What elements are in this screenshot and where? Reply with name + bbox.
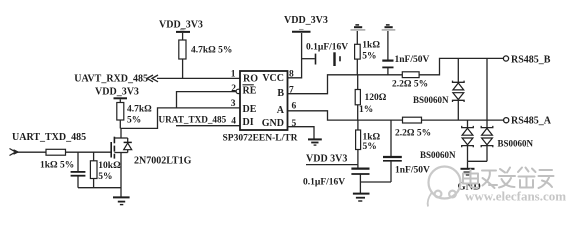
svg-text:BS0060N: BS0060N	[413, 95, 449, 105]
svg-text:URAT_TXD_485: URAT_TXD_485	[159, 115, 227, 125]
capacitor C6 1nF/50V (A)	[360, 120, 430, 182]
svg-text:RS485_A: RS485_A	[511, 116, 552, 127]
svg-text:B: B	[277, 88, 284, 99]
node URAT_TXD_485 (DI)	[159, 115, 241, 126]
svg-text:4.7kΩ 5%: 4.7kΩ 5%	[191, 46, 232, 56]
resistor R5 1k (B bias)	[355, 31, 381, 75]
wire B to port	[419, 58, 503, 74]
svg-text:BS0060N: BS0060N	[420, 150, 456, 160]
wire TVS ground link	[468, 160, 488, 162]
svg-text:DI: DI	[243, 117, 254, 128]
svg-text:VDD 3V3: VDD 3V3	[306, 154, 347, 165]
resistor R4 10k gate pulldown	[90, 152, 121, 188]
transistor Q1 2N7002LT1G	[111, 128, 191, 196]
svg-text:5%: 5%	[362, 52, 376, 62]
svg-text:VDD_3V3: VDD_3V3	[284, 15, 328, 26]
port RS485_A	[504, 116, 552, 127]
svg-text:1: 1	[231, 70, 236, 80]
diode D3 TVS BS0060N (A-GND)	[420, 120, 473, 161]
ground (pin5)	[308, 139, 322, 145]
svg-text:1kΩ: 1kΩ	[362, 41, 380, 51]
wire R2 to drain node	[119, 120, 121, 128]
svg-text:0.1µF/16V: 0.1µF/16V	[306, 43, 348, 53]
svg-text:1kΩ: 1kΩ	[363, 133, 381, 143]
ground (Q1 source)	[113, 197, 130, 204]
wire RXD to pin1	[157, 77, 240, 79]
svg-text:5%: 5%	[363, 142, 377, 152]
svg-text:6: 6	[292, 102, 297, 112]
wire ground rail	[78, 187, 121, 189]
svg-text:DE: DE	[243, 104, 257, 115]
resistor R9 1k (A bias)	[356, 120, 381, 165]
svg-text:UAVT_RXD_485: UAVT_RXD_485	[74, 74, 148, 85]
svg-text:1%: 1%	[359, 105, 373, 115]
op-amp U1 SP3072EEN-L/TR body	[223, 71, 298, 144]
resistor R7 2.2 ohm (B series)	[392, 72, 428, 90]
watermark text dianzi fashaoyou	[463, 168, 554, 189]
wire pin8 VCC	[288, 33, 302, 78]
node UAVT_RXD_485	[74, 74, 158, 85]
wire TXD to R3	[18, 151, 47, 153]
svg-text:www.elecfans.com: www.elecfans.com	[465, 189, 566, 204]
svg-text:2.2Ω 5%: 2.2Ω 5%	[395, 129, 431, 139]
power bar (above C4)	[382, 25, 396, 30]
wire pin7 B line	[288, 75, 403, 94]
wire pin5 GND	[288, 127, 315, 139]
svg-text:4: 4	[231, 117, 236, 127]
node UART_TXD_485 input	[10, 132, 87, 156]
svg-text:10kΩ: 10kΩ	[98, 161, 121, 171]
wire R3 to gate	[66, 151, 111, 153]
resistor R8 2.2 ohm (A series)	[395, 117, 431, 138]
resistor R2 4.7k pullup drain	[117, 103, 152, 126]
svg-text:BS0060N: BS0060N	[498, 139, 534, 149]
power VDD_3V3 (VCC)	[284, 15, 328, 32]
port RS485_B	[503, 55, 550, 66]
svg-text:1nF/50V: 1nF/50V	[395, 166, 430, 176]
wire pin6 A line	[288, 111, 403, 120]
wire RE tie vertical	[177, 92, 237, 108]
power VDD_3V3 (top, above R1)	[159, 20, 203, 41]
wire R1 to RXD net	[182, 59, 184, 78]
capacitor C4 1nF/50V (B)	[382, 31, 429, 75]
svg-text:3: 3	[231, 99, 236, 109]
svg-text:0.1µF/16V: 0.1µF/16V	[303, 178, 345, 188]
source stub	[114, 152, 127, 154]
power VDD_3V3 (above R2)	[95, 87, 139, 103]
channel segments	[113, 137, 115, 144]
resistor R6 120 ohm termination	[355, 75, 387, 120]
svg-text:2N7002LT1G: 2N7002LT1G	[134, 156, 192, 167]
svg-text:SP3072EEN-L/TR: SP3072EEN-L/TR	[223, 134, 298, 144]
svg-text:4.7kΩ: 4.7kΩ	[127, 105, 152, 115]
pin 2 bubble	[236, 89, 240, 93]
svg-text:5%: 5%	[127, 116, 141, 126]
svg-text:RO: RO	[243, 74, 258, 85]
svg-text:VDD_3V3: VDD_3V3	[95, 87, 139, 98]
resistor R1 4.7k pullup RXD	[179, 40, 233, 59]
gate bar	[110, 142, 112, 158]
ground (TVS)	[458, 161, 482, 192]
svg-text:2: 2	[231, 84, 236, 94]
diode D2 TVS BS0060N (B-GND)	[481, 58, 533, 161]
capacitor C3 0.1uF/16V (VCC decouple)	[302, 43, 349, 67]
svg-text:UART_TXD_485: UART_TXD_485	[12, 132, 86, 143]
capacitor C2 (gate filter)	[71, 152, 86, 188]
power bar (above R5)	[351, 25, 366, 30]
svg-text:VDD_3V3: VDD_3V3	[159, 20, 203, 31]
svg-text:120Ω: 120Ω	[365, 93, 387, 103]
svg-text:GND: GND	[262, 118, 284, 129]
wire drain node to RE/DE tie	[120, 108, 240, 128]
capacitor C5 0.1uF/16V (bias)	[303, 165, 370, 193]
svg-text:5: 5	[292, 119, 297, 129]
node VDD 3V3 (A bias supply)	[306, 154, 358, 165]
diode D1 TVS BS0060N (A-B)	[413, 58, 464, 120]
svg-text:RS485_B: RS485_B	[511, 55, 551, 66]
svg-text:1kΩ 5%: 1kΩ 5%	[40, 161, 74, 171]
svg-text:A: A	[277, 105, 285, 116]
svg-text:1nF/50V: 1nF/50V	[395, 55, 430, 65]
svg-text:5%: 5%	[98, 172, 112, 182]
resistor R3 1k series gate	[40, 149, 74, 170]
drain stub	[114, 137, 127, 139]
wire A to port	[422, 119, 504, 121]
svg-text:2.2Ω 5%: 2.2Ω 5%	[392, 80, 428, 90]
svg-text:VCC: VCC	[262, 73, 284, 84]
body diode	[127, 138, 129, 142]
ground (C5)	[353, 194, 370, 201]
watermark logo circle	[428, 167, 461, 207]
svg-text:RE: RE	[243, 86, 257, 97]
